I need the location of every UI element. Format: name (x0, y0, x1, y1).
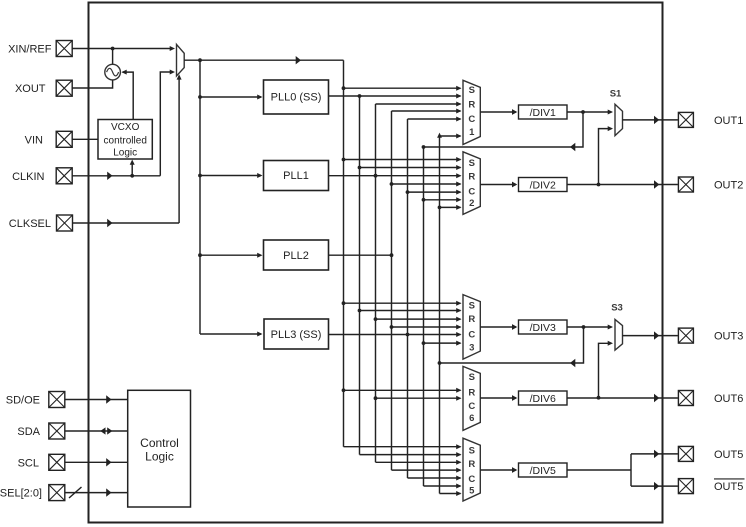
pin XOUT pad (56, 80, 72, 96)
chip boundary (89, 3, 663, 523)
wire SRC2 output to divider /DIV2 (480, 182, 517, 188)
wire into PLL0 (200, 95, 263, 100)
svg-text:/DIV2: /DIV2 (530, 180, 556, 192)
pin XOUT label (15, 83, 46, 95)
wire v1 to SRC3 in1 (344, 301, 462, 306)
wire v4 to SRC5 in4 (392, 468, 462, 473)
svg-text:OUT5: OUT5 (714, 449, 743, 461)
pin OUT2 label (714, 180, 743, 192)
wire XIN/REF down to crystal osc (112, 49, 114, 65)
wire v3 to SRC1 in3 (376, 102, 462, 107)
divider /DIV1 (519, 105, 568, 119)
svg-text:VCXO: VCXO (111, 122, 140, 133)
node on XIN/REF wire (osc tap) (111, 47, 115, 51)
pin OUT1 label (714, 115, 743, 127)
wire VIN to VCXO block (72, 138, 98, 140)
wire /DIV1 feedback to bus v6 (424, 112, 584, 151)
pin CLKIN pad (56, 168, 72, 184)
divider /DIV5 (519, 463, 568, 477)
node v4 SRC2 (390, 182, 394, 186)
svg-text:C: C (468, 401, 475, 412)
mux S3 (611, 303, 623, 351)
svg-text:OUT3: OUT3 (714, 331, 743, 343)
mux SRC1 (463, 80, 480, 144)
svg-text:/DIV5: /DIV5 (530, 465, 556, 477)
node /DIV2 tap (597, 183, 601, 187)
svg-text:3: 3 (469, 342, 474, 353)
wire v1 to SRC2 in1 (344, 157, 462, 162)
svg-text:Logic: Logic (113, 148, 137, 159)
pin SEL[2:0] pad (49, 485, 65, 501)
svg-text:C: C (468, 474, 475, 485)
svg-text:PLL3 (SS): PLL3 (SS) (271, 329, 322, 341)
wire S1 output to OUT1 (623, 116, 678, 124)
svg-text:S: S (469, 85, 475, 96)
svg-text:CLKIN: CLKIN (12, 171, 44, 183)
wire v6 to SRC5 in6 (424, 484, 462, 489)
wire bus v7 vertical (DIV3 feedback) (439, 136, 441, 494)
svg-text:5: 5 (469, 485, 475, 496)
node PLL3 out (406, 333, 410, 337)
wire SRC1 output to divider /DIV1 (480, 109, 517, 115)
svg-text:VIN: VIN (25, 134, 43, 146)
wire /DIV5 output split (568, 450, 678, 491)
pin OUT5 label (714, 449, 743, 461)
svg-text:2: 2 (469, 198, 474, 209)
divider /DIV2 (519, 178, 568, 192)
pin XIN/REF label (8, 44, 52, 56)
wire bus v6 vertical (DIV1 feedback) (423, 147, 425, 486)
pin SD/OE pad (49, 392, 65, 408)
svg-text:PLL1: PLL1 (283, 170, 309, 182)
wire v3 to SRC6 in2 (376, 396, 462, 401)
wire /DIV6 output to OUT6 (567, 394, 678, 402)
wire PLL feed vertical (199, 60, 201, 334)
svg-text:SD/OE: SD/OE (6, 395, 40, 407)
wire into PLL1 (200, 173, 263, 178)
wire v2 to SRC2 in2 (360, 165, 462, 170)
pin CLKIN label (12, 171, 44, 183)
node v3 SRC3 (374, 317, 378, 321)
wire /DIV3 output to mux S3 in1 (567, 325, 613, 330)
svg-text:6: 6 (469, 413, 474, 424)
wire v2 to SRC5 in2 (360, 452, 462, 457)
wire v4 to SRC2 in4 (392, 182, 462, 187)
svg-text:controlled: controlled (104, 136, 147, 147)
svg-text:C: C (468, 114, 475, 125)
svg-text:SDA: SDA (17, 426, 40, 438)
pin OUT3 pad (678, 328, 693, 343)
svg-text:S: S (469, 158, 475, 169)
wire /DIV3 feedback to bus v7 (440, 327, 584, 367)
pin SD/OE label (6, 395, 40, 407)
node v3 SRC6 (374, 396, 378, 400)
svg-text:S: S (469, 445, 475, 456)
svg-text:PLL2: PLL2 (283, 250, 309, 262)
Control Logic block U2 (128, 390, 191, 507)
wire PLL3 output to SRC3 in5 (329, 332, 462, 337)
wire CLKIN branch up to VCXO block (130, 160, 135, 176)
svg-text:S: S (469, 372, 475, 383)
mux SRC2 (463, 152, 480, 215)
pin OUT6 label (714, 393, 743, 405)
wire SRC6 output to divider /DIV6 (480, 395, 517, 401)
wire ref mux output to bus v1 (184, 56, 343, 64)
node v6 top (422, 145, 426, 149)
svg-text:Control: Control (140, 436, 179, 450)
svg-text:C: C (468, 187, 475, 198)
svg-text:S3: S3 (611, 303, 623, 314)
wire v6 to SRC2 in6 (424, 197, 462, 202)
pin OUT5 (inverted) pad (678, 479, 693, 494)
node PLL0 feed (198, 95, 202, 99)
wire v1 to SRC5 in1 (344, 444, 462, 449)
pin VIN label (25, 134, 43, 146)
wire v3 to SRC3 in3 (376, 317, 462, 322)
svg-text:R: R (468, 172, 475, 183)
wire v7 to SRC5 in7 (440, 491, 462, 496)
node PLL2 feed (198, 253, 202, 257)
wire v5 to SRC1 in5 (408, 117, 462, 122)
wire bus v5 vertical (407, 119, 409, 478)
svg-text:R: R (468, 459, 475, 470)
svg-text:1: 1 (469, 127, 475, 138)
svg-text:S: S (469, 301, 475, 312)
node v2 SRC3 (358, 309, 362, 313)
mux S1 (610, 89, 623, 136)
pin SEL[2:0] label (0, 488, 42, 500)
VCXO controlled Logic block U1 (98, 120, 152, 160)
node PLL0 out (358, 94, 362, 98)
node v6 SRC3 (422, 341, 426, 345)
wire v5 to SRC5 in5 (408, 476, 462, 481)
PLL2 block (264, 240, 329, 270)
node v2 SRC2 (358, 166, 362, 170)
svg-text:/DIV3: /DIV3 (530, 322, 556, 334)
wire CLKIN to ref mux input 2 (72, 70, 175, 181)
wire bus v4 vertical (391, 111, 393, 470)
wire v7 to SRC2 in7 (440, 205, 462, 210)
wire XIN/REF to ref mux input 1 (72, 46, 175, 51)
mux SRC5 (463, 438, 480, 501)
pin CLKSEL pad (57, 215, 73, 231)
PLL1 block (264, 161, 329, 191)
wire SRC3 output to divider /DIV3 (480, 324, 517, 330)
wire SCL to Control Logic (66, 458, 128, 466)
wire VCXO control to osc (121, 70, 133, 120)
node /DIV3 out (582, 325, 586, 329)
node v7 SRC2 (438, 206, 442, 210)
svg-text:OUT5: OUT5 (714, 481, 743, 493)
pin OUT5 pad (678, 446, 693, 461)
svg-text:CLKSEL: CLKSEL (9, 218, 51, 230)
node v4 SRC3 (390, 325, 394, 329)
svg-text:OUT6: OUT6 (714, 393, 743, 405)
wire v5 to SRC2 in5 (408, 190, 462, 195)
svg-text:R: R (468, 387, 475, 398)
svg-text:SCL: SCL (18, 457, 39, 469)
wire /DIV1 output to mux S1 in1 (567, 110, 613, 115)
node v5 SRC2 (406, 190, 410, 194)
svg-text:OUT1: OUT1 (714, 115, 743, 127)
svg-text:PLL0 (SS): PLL0 (SS) (271, 92, 322, 104)
wire /DIV2 output to OUT2 (567, 180, 678, 188)
wire bus v2 vertical (359, 96, 361, 455)
wire v6 to SRC3 in6 (424, 341, 462, 346)
wire v4 to SRC1 in4 (392, 109, 462, 114)
wire v2 to SRC3 in2 (360, 308, 462, 313)
node CLKIN to VCXO branch (130, 174, 134, 178)
pin SCL pad (49, 454, 65, 470)
node v1 SRC2 (342, 158, 346, 162)
divider /DIV3 (519, 320, 568, 334)
wire S3 output to OUT3 (623, 331, 678, 339)
node /DIV6 tap (597, 396, 601, 400)
svg-text:SEL[2:0]: SEL[2:0] (0, 488, 42, 500)
pin SDA pad (49, 423, 65, 439)
wire v7 to SRC1 in6 (440, 134, 462, 139)
wire CLKSEL to ref mux select (73, 74, 182, 227)
divider /DIV6 (519, 391, 568, 405)
node ref feed (198, 58, 202, 62)
wire ref bus v1 vertical (343, 60, 345, 447)
wire XOUT to crystal osc (72, 80, 112, 88)
wire v1 to SRC1 in1 (344, 86, 462, 91)
wire PLL1 output to SRC2 in3 (329, 173, 462, 178)
pin VIN pad (56, 131, 72, 147)
wire /DIV6 tap to mux S3 in2 (599, 341, 614, 398)
node v7 fb source (438, 361, 442, 365)
pin OUT1 pad (678, 112, 693, 127)
svg-text:OUT2: OUT2 (714, 180, 743, 192)
pin SDA label (17, 426, 40, 438)
mux SRC3 (463, 295, 480, 360)
svg-text:/DIV6: /DIV6 (530, 393, 556, 405)
wire SDA to Control Logic (bidirectional) (66, 427, 128, 434)
mux SRC6 (463, 366, 480, 430)
svg-text:/DIV1: /DIV1 (530, 107, 556, 119)
svg-text:C: C (468, 329, 475, 340)
PLL3 block (264, 319, 329, 349)
wire SEL[2:0] to Control Logic (66, 487, 128, 498)
svg-text:Logic: Logic (145, 450, 174, 464)
wire v3 to SRC5 in3 (376, 460, 462, 465)
svg-text:XIN/REF: XIN/REF (8, 44, 52, 56)
wire into PLL3 (200, 332, 263, 337)
pin OUT5 (inverted) label (714, 479, 745, 493)
wire v1 to SRC6 in1 (344, 388, 462, 393)
svg-text:XOUT: XOUT (15, 83, 46, 95)
crystal oscillator OSC (105, 64, 121, 80)
node /DIV1 out (581, 110, 585, 114)
wire SD/OE to Control Logic (66, 395, 128, 403)
pin CLKSEL label (9, 218, 51, 230)
pin OUT6 pad (678, 391, 693, 406)
pin OUT2 pad (678, 177, 693, 192)
wire PLL2 output to bus v4 (329, 254, 392, 256)
node PLL1 out (374, 174, 378, 178)
svg-text:S1: S1 (610, 89, 622, 100)
node PLL2 out (390, 253, 394, 257)
node v1 SRC6 (342, 388, 346, 392)
pin SCL label (18, 457, 39, 469)
node v1 SRC3 (342, 301, 346, 305)
node PLL1 feed (198, 174, 202, 178)
pin XIN/REF pad (56, 41, 72, 57)
wire /DIV2 tap to mux S1 in2 (599, 126, 614, 184)
PLL0 block (264, 80, 329, 114)
svg-text:R: R (468, 99, 475, 110)
pin OUT3 label (714, 331, 743, 343)
wire SRC5 output to divider /DIV5 (480, 467, 517, 473)
svg-text:R: R (468, 314, 475, 325)
node v6 SRC2 (422, 198, 426, 202)
wire PLL0 output to SRC1 in2 (329, 94, 462, 99)
wire bus v3 vertical (375, 104, 377, 462)
wire v4 to SRC3 in4 (392, 325, 462, 330)
node v1 SRC1 (342, 86, 346, 90)
wire into PLL2 (200, 253, 263, 258)
ref mux M1 (177, 44, 185, 76)
